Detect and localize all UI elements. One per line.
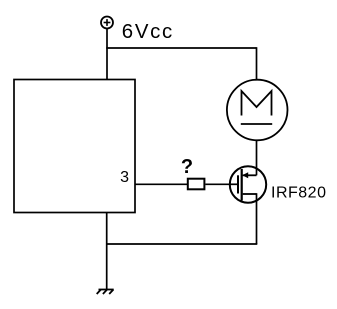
svg-text:?: ? [181, 156, 193, 178]
svg-text:6Vcc: 6Vcc [122, 21, 174, 43]
svg-text:3: 3 [120, 169, 129, 186]
svg-text:IRF820: IRF820 [271, 185, 326, 202]
